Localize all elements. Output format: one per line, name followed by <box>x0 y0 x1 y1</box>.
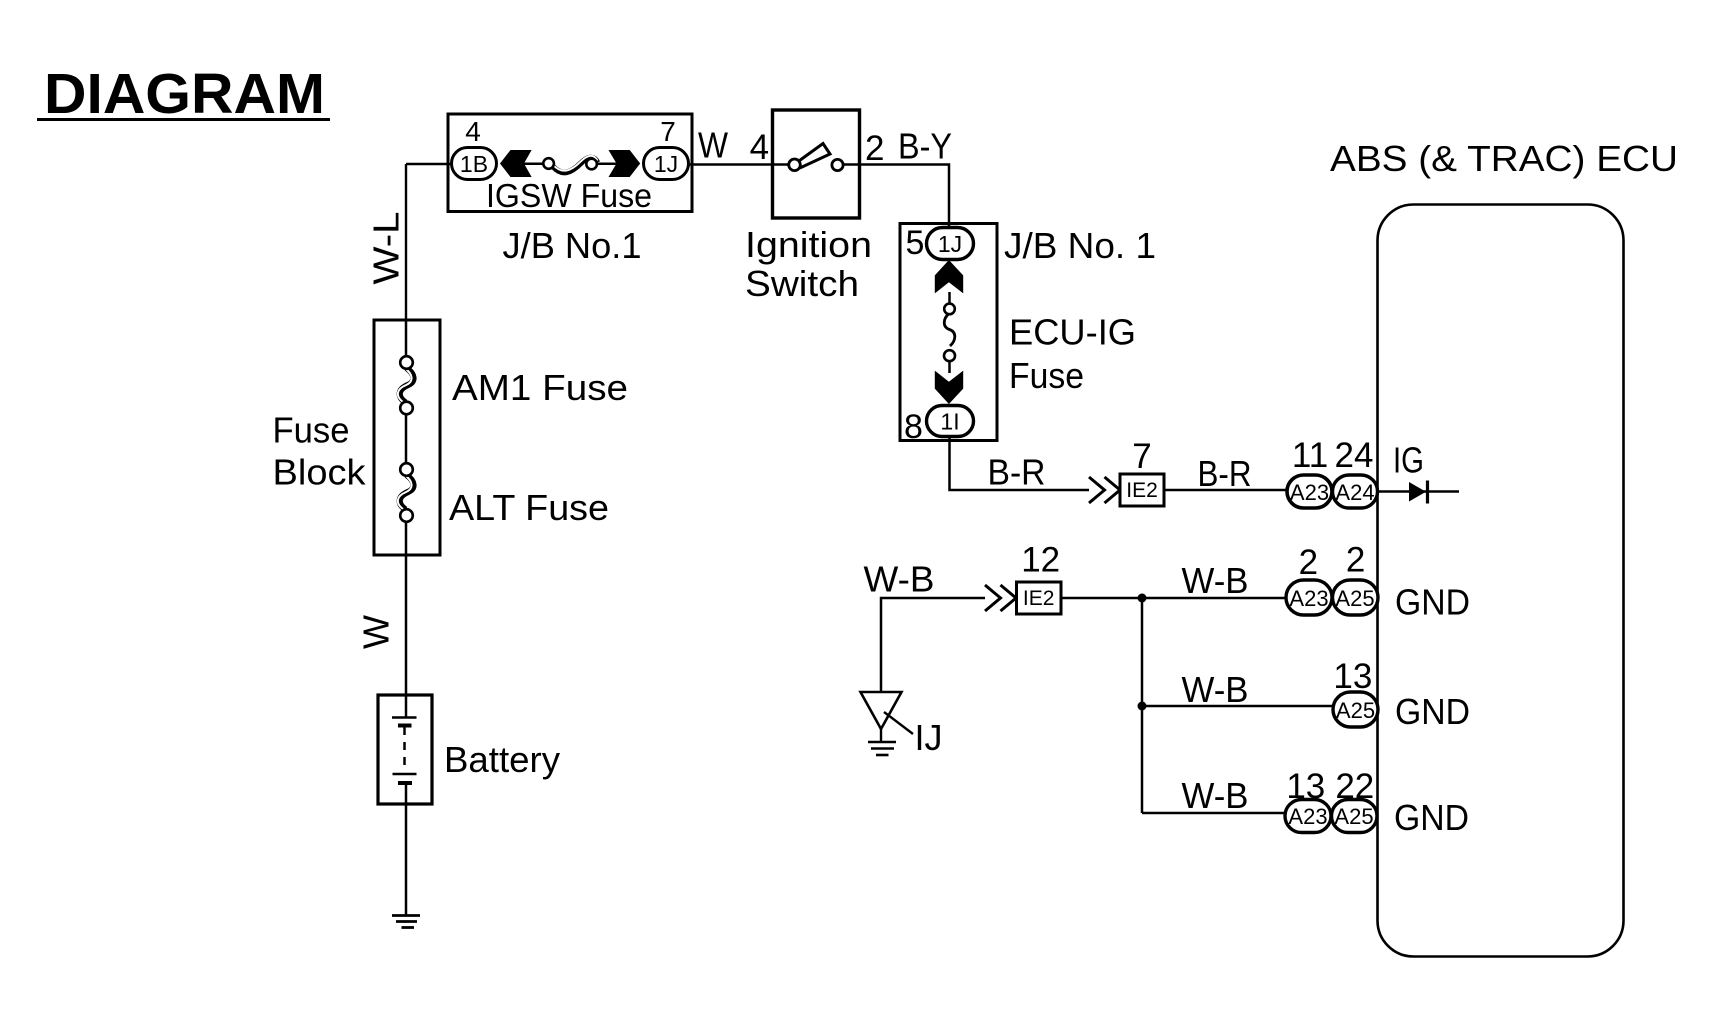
wire B-Y to ECU-IG fuse <box>860 165 950 228</box>
svg-text:W: W <box>356 615 397 649</box>
svg-text:4: 4 <box>750 128 769 167</box>
arrow up (ECU-IG) <box>935 260 963 293</box>
svg-text:IE2: IE2 <box>1126 479 1158 502</box>
svg-text:Fuse: Fuse <box>273 410 350 451</box>
connector A25 (GND3) <box>1332 800 1378 833</box>
connector A25 (GND1) <box>1333 580 1379 615</box>
connector A25 (GND2) <box>1333 692 1378 727</box>
chevrons W-B <box>985 585 1016 611</box>
wire W-L horizontal to IGSW box <box>406 163 451 165</box>
J/B No. 1 box (ECU-IG) <box>900 224 997 447</box>
connector 1J (ECU-IG top) <box>927 228 974 260</box>
wire W-B row2 <box>1142 705 1334 708</box>
arrow down (ECU-IG) <box>935 371 963 404</box>
connector 1I (ECU-IG bottom) <box>927 406 974 437</box>
wire W to ignition switch <box>688 163 773 166</box>
diode <box>1409 481 1428 504</box>
svg-text:ABS (& TRAC) ECU: ABS (& TRAC) ECU <box>1330 138 1678 179</box>
svg-text:13: 13 <box>1333 657 1372 696</box>
switch lever <box>798 144 831 168</box>
ECU box <box>1378 205 1624 957</box>
arrow right (IGSW fuse) <box>609 150 641 177</box>
svg-text:IJ: IJ <box>915 717 943 758</box>
svg-text:Ignition: Ignition <box>745 224 872 265</box>
svg-text:A25: A25 <box>1336 698 1375 723</box>
wire fuse left <box>524 163 544 166</box>
svg-text:Fuse: Fuse <box>1009 355 1084 396</box>
connector 1J <box>644 148 689 180</box>
junction connector IE2 (7) <box>1120 437 1164 506</box>
svg-text:12: 12 <box>1021 541 1060 580</box>
svg-text:B-R: B-R <box>988 452 1046 493</box>
svg-text:DIAGRAM: DIAGRAM <box>44 62 325 126</box>
connector A23 (GND3) <box>1285 800 1331 833</box>
title DIAGRAM <box>37 62 330 126</box>
svg-text:W: W <box>698 125 728 166</box>
J/B No.1 box (IGSW) <box>448 114 692 214</box>
fuse ALT <box>398 463 414 522</box>
junction connector IE2 (12) <box>1017 541 1062 615</box>
svg-text:IE2: IE2 <box>1023 587 1055 610</box>
svg-text:AM1 Fuse: AM1 Fuse <box>452 367 628 408</box>
svg-text:GND: GND <box>1394 797 1469 838</box>
svg-text:B-Y: B-Y <box>898 126 952 167</box>
svg-text:J/B No.1: J/B No.1 <box>503 225 642 266</box>
svg-text:A23: A23 <box>1289 586 1328 611</box>
svg-text:W-B: W-B <box>1182 560 1249 601</box>
svg-text:W-B: W-B <box>1182 669 1249 710</box>
junction dot 1 <box>1138 594 1147 603</box>
IJ pointer line <box>884 712 913 734</box>
fuse IGSW <box>543 156 597 173</box>
svg-text:1J: 1J <box>938 231 962 257</box>
svg-text:ECU-IG: ECU-IG <box>1009 312 1136 353</box>
svg-text:2: 2 <box>1299 543 1318 582</box>
ignition switch box <box>773 110 860 218</box>
wire to diode <box>1377 490 1459 493</box>
arrow left (IGSW fuse) <box>500 150 532 177</box>
wire inside fuse block top <box>405 321 408 358</box>
svg-text:1I: 1I <box>940 409 959 435</box>
wire W-B to GND1 <box>1061 597 1287 600</box>
svg-text:ALT Fuse: ALT Fuse <box>449 487 609 528</box>
svg-text:Block: Block <box>273 452 367 493</box>
ground IJ triangle <box>861 692 902 755</box>
wire W-B main <box>881 598 985 692</box>
svg-text:8: 8 <box>904 408 923 446</box>
svg-text:11: 11 <box>1292 436 1328 475</box>
svg-text:5: 5 <box>906 224 925 262</box>
connector A23 (GND1) <box>1286 580 1332 615</box>
wire battery to ground <box>405 804 408 915</box>
svg-text:7: 7 <box>660 116 676 147</box>
fuse block box <box>374 320 440 555</box>
chevrons B-R <box>1089 477 1120 503</box>
svg-text:24: 24 <box>1335 436 1374 475</box>
svg-text:2: 2 <box>865 129 884 168</box>
battery symbol <box>392 695 417 804</box>
ground (battery) <box>392 916 420 928</box>
svg-text:GND: GND <box>1395 582 1470 623</box>
wire fuse right <box>597 163 617 166</box>
svg-text:Battery: Battery <box>444 739 560 780</box>
battery box <box>378 695 432 804</box>
svg-text:1B: 1B <box>460 151 488 177</box>
wire vertical branch <box>1141 598 1144 813</box>
svg-text:2: 2 <box>1346 541 1365 580</box>
svg-text:A23: A23 <box>1290 480 1329 505</box>
svg-text:A25: A25 <box>1334 804 1373 829</box>
svg-text:A23: A23 <box>1288 804 1327 829</box>
svg-text:IG: IG <box>1393 440 1424 481</box>
svg-text:4: 4 <box>465 116 481 147</box>
svg-text:IGSW Fuse: IGSW Fuse <box>486 177 652 214</box>
svg-text:A24: A24 <box>1335 480 1374 505</box>
switch contact left <box>789 159 801 171</box>
wire fuse block bottom to battery <box>405 521 408 696</box>
wire B-R right <box>1164 489 1287 492</box>
wire between fuses <box>405 414 408 464</box>
svg-text:Switch: Switch <box>745 263 859 304</box>
svg-text:W-B: W-B <box>1182 775 1249 816</box>
svg-text:W-L: W-L <box>366 212 407 285</box>
svg-text:W-B: W-B <box>864 559 935 600</box>
wire W-L vertical <box>405 164 407 321</box>
connector A23 (IG) <box>1287 475 1332 508</box>
svg-text:J/B No. 1: J/B No. 1 <box>1004 225 1156 266</box>
wire W-B row3 <box>1142 812 1286 815</box>
fuse AM1 <box>398 356 414 414</box>
junction dot 2 <box>1138 702 1147 711</box>
connector A24 (IG) <box>1333 475 1378 508</box>
svg-text:1J: 1J <box>654 151 678 177</box>
fuse ECU-IG <box>944 292 955 373</box>
svg-text:A25: A25 <box>1335 586 1374 611</box>
switch contact right <box>832 159 843 170</box>
wire B-R <box>950 437 1090 490</box>
svg-text:B-R: B-R <box>1198 453 1252 494</box>
connector 1B <box>452 148 497 180</box>
svg-text:7: 7 <box>1132 437 1151 476</box>
svg-text:GND: GND <box>1395 691 1470 732</box>
